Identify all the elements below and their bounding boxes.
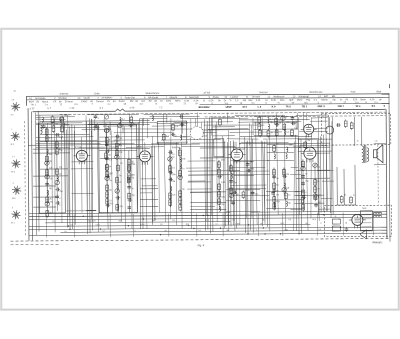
svg-text:5p: 5p <box>182 189 185 191</box>
svg-text:1M: 1M <box>307 140 310 142</box>
svg-text:4 d: 4 d <box>140 104 144 106</box>
svg-text:0,1: 0,1 <box>314 100 318 102</box>
svg-text:470: 470 <box>250 168 254 170</box>
svg-text:1 a: 1 a <box>45 104 49 106</box>
svg-text:1M: 1M <box>59 167 62 169</box>
svg-text:EL: EL <box>107 101 111 103</box>
svg-text:8µF: 8µF <box>289 100 294 102</box>
svg-text:Sk: Sk <box>218 100 222 102</box>
svg-text:g2: g2 <box>109 139 112 141</box>
svg-text:Netz: Netz <box>362 207 366 210</box>
svg-text:LS: LS <box>375 141 378 143</box>
svg-text:6,3V~: 6,3V~ <box>140 224 146 226</box>
svg-text:4µ: 4µ <box>226 230 229 232</box>
svg-text:a: a <box>59 198 61 200</box>
svg-text:30: 30 <box>271 132 274 134</box>
svg-text:12: 12 <box>353 195 356 197</box>
svg-text:0,5: 0,5 <box>288 219 292 221</box>
svg-text:0,05: 0,05 <box>246 190 251 192</box>
svg-text:60: 60 <box>172 157 175 159</box>
svg-text:1 4: 1 4 <box>12 156 15 158</box>
svg-text:450V: 450V <box>297 100 303 102</box>
svg-text:80: 80 <box>136 101 139 103</box>
svg-text:0: 0 <box>12 207 13 209</box>
svg-text:Demod: Demod <box>96 101 104 103</box>
svg-text:EZ: EZ <box>149 101 153 103</box>
svg-text:0,2A: 0,2A <box>370 98 375 101</box>
svg-text:70p: 70p <box>233 182 237 184</box>
svg-text:1n: 1n <box>288 195 291 197</box>
svg-text:NSF 3: NSF 3 <box>318 105 326 108</box>
svg-text:470: 470 <box>119 206 123 208</box>
svg-text:2M: 2M <box>286 174 289 176</box>
svg-text:Netzsch: Netzsch <box>88 220 95 223</box>
svg-text:Ausf.: Ausf. <box>350 91 356 94</box>
svg-text:0,1: 0,1 <box>109 200 113 202</box>
svg-text:470: 470 <box>49 202 53 204</box>
svg-text:Pil: Pil <box>346 99 349 101</box>
svg-text:100: 100 <box>59 150 63 152</box>
svg-text:2M: 2M <box>119 138 122 140</box>
svg-text:Elko: Elko <box>280 100 285 102</box>
svg-text:EM: EM <box>130 101 134 103</box>
svg-text:EF89: EF89 <box>137 146 143 148</box>
svg-text:0,1: 0,1 <box>276 194 280 196</box>
svg-text:84: 84 <box>113 101 116 103</box>
svg-text:Si: Si <box>203 100 206 102</box>
svg-text:Skalenlampe: Skalenlampe <box>145 92 160 95</box>
svg-text:5k: 5k <box>317 181 320 183</box>
svg-text:8: 8 <box>156 103 158 105</box>
svg-text:0,2: 0,2 <box>198 230 202 232</box>
svg-text:52 a: 52 a <box>356 105 361 108</box>
svg-text:0,3: 0,3 <box>286 132 290 134</box>
svg-text:e 04: e 04 <box>130 106 135 109</box>
svg-text:1n: 1n <box>119 159 122 161</box>
svg-text:2x: 2x <box>340 99 343 101</box>
svg-text:gn: gn <box>379 99 382 101</box>
svg-text:M 4: M 4 <box>243 106 248 109</box>
svg-text:70p: 70p <box>305 181 309 183</box>
svg-text:a: a <box>134 230 136 232</box>
svg-text:2M: 2M <box>172 181 175 183</box>
svg-text:0,05: 0,05 <box>221 182 226 184</box>
svg-text:0,5: 0,5 <box>49 168 53 170</box>
svg-text:2 c: 2 c <box>108 104 112 106</box>
svg-text:Sk b: Sk b <box>12 198 17 200</box>
svg-text:70p: 70p <box>131 195 135 197</box>
svg-text:5p: 5p <box>119 175 122 177</box>
svg-text:220V: 220V <box>166 101 172 103</box>
svg-text:W: W <box>175 136 177 138</box>
svg-text:c 30: c 30 <box>70 107 75 110</box>
svg-text:Gr: Gr <box>265 99 268 102</box>
svg-text:0,5: 0,5 <box>286 188 290 190</box>
svg-text:0,5: 0,5 <box>119 145 123 147</box>
svg-text:8 b: 8 b <box>372 105 376 108</box>
svg-text:k: k <box>59 205 61 207</box>
svg-text:3n: 3n <box>305 173 308 175</box>
svg-text:6,8: 6,8 <box>175 126 179 128</box>
svg-text:W 4: W 4 <box>312 219 316 221</box>
svg-text:d 1: d 1 <box>100 107 104 110</box>
svg-text:ECH81: ECH81 <box>75 147 83 149</box>
svg-text:6,8: 6,8 <box>109 159 113 161</box>
svg-text:35: 35 <box>124 104 127 106</box>
svg-text:7: 7 <box>92 104 94 106</box>
svg-text:E10: E10 <box>353 99 358 101</box>
svg-text:Skl: Skl <box>332 99 336 101</box>
svg-text:0,25: 0,25 <box>256 100 261 102</box>
svg-text:K 9: K 9 <box>272 105 277 108</box>
svg-text:k: k <box>98 128 100 130</box>
svg-text:89: 89 <box>59 101 62 103</box>
svg-text:2x45: 2x45 <box>271 100 277 102</box>
svg-text:St II: St II <box>10 143 14 146</box>
svg-text:30: 30 <box>164 230 167 232</box>
svg-text:6,8: 6,8 <box>318 229 322 231</box>
svg-text:EF: EF <box>53 101 57 103</box>
svg-text:30: 30 <box>108 155 111 157</box>
svg-text:b 7: b 7 <box>48 107 52 110</box>
svg-text:0,1: 0,1 <box>52 221 56 223</box>
svg-text:0,1: 0,1 <box>172 167 176 169</box>
svg-text:EM80: EM80 <box>300 145 306 147</box>
svg-text:a: a <box>98 118 100 120</box>
svg-text:21: 21 <box>184 103 187 105</box>
svg-text:L 2: L 2 <box>258 106 262 109</box>
svg-text:Zf-Teil: Zf-Teil <box>203 92 210 95</box>
svg-text:W: W <box>109 166 111 168</box>
svg-text:Zf-Verst: Zf-Verst <box>65 100 73 103</box>
svg-text:Ba9s: Ba9s <box>361 99 367 101</box>
svg-text:0,3: 0,3 <box>166 136 170 138</box>
svg-text:Anz: Anz <box>141 100 146 103</box>
svg-text:5p: 5p <box>288 203 291 205</box>
svg-text:EL84: EL84 <box>240 149 246 151</box>
svg-text:0: 0 <box>320 223 322 225</box>
svg-text:f6: f6 <box>345 223 348 225</box>
svg-text:0,5A: 0,5A <box>209 99 214 102</box>
svg-text:W 1: W 1 <box>11 222 15 224</box>
svg-text:1M: 1M <box>221 204 224 206</box>
svg-text:12: 12 <box>102 231 105 233</box>
svg-text:0,05: 0,05 <box>59 137 64 139</box>
svg-text:15: 15 <box>120 163 123 165</box>
svg-text:26: 26 <box>13 91 16 93</box>
svg-text:60: 60 <box>276 185 279 187</box>
svg-text:81: 81 <box>37 102 40 104</box>
svg-text:EABC: EABC <box>81 100 88 103</box>
svg-text:3n: 3n <box>131 188 134 190</box>
svg-text:Fig. 4: Fig. 4 <box>198 243 205 247</box>
svg-text:1n: 1n <box>182 168 185 170</box>
svg-text:Gl: Gl <box>160 101 163 103</box>
svg-text:4µ: 4µ <box>276 178 279 180</box>
svg-text:10k: 10k <box>49 178 53 180</box>
svg-text:0,1: 0,1 <box>172 220 176 222</box>
svg-text:50k: 50k <box>49 154 53 156</box>
svg-text:0,1: 0,1 <box>49 137 53 139</box>
svg-text:6,3V: 6,3V <box>184 100 189 102</box>
svg-text:Pap: Pap <box>306 100 311 102</box>
svg-text:Dr: Dr <box>224 99 227 102</box>
svg-text:Reinartz: Reinartz <box>372 240 383 244</box>
svg-text:g2: g2 <box>344 194 347 196</box>
svg-text:0 b: 0 b <box>75 104 79 106</box>
svg-text:6: 6 <box>384 105 386 108</box>
svg-text:Sk a: Sk a <box>11 171 16 173</box>
svg-text:50k: 50k <box>172 174 176 176</box>
svg-text:Wid: Wid <box>248 100 253 102</box>
svg-text:Antenne: Antenne <box>59 93 69 96</box>
svg-text:k: k <box>261 125 263 127</box>
svg-text:80: 80 <box>91 101 94 103</box>
svg-text:50k: 50k <box>276 201 280 203</box>
svg-text:Erde: Erde <box>94 92 100 95</box>
svg-text:100: 100 <box>284 229 288 231</box>
svg-text:c: c <box>11 129 12 131</box>
svg-text:TB 1: TB 1 <box>302 105 308 108</box>
svg-text:70p: 70p <box>59 191 63 193</box>
svg-text:UKW: UKW <box>226 106 233 109</box>
svg-text:200: 200 <box>182 137 186 139</box>
svg-text:50Hz: 50Hz <box>175 101 181 103</box>
svg-text:9 f: 9 f <box>196 103 199 105</box>
svg-text:Endst: Endst <box>119 100 125 103</box>
svg-text:a b: a b <box>12 99 15 101</box>
svg-text:80: 80 <box>154 101 157 103</box>
svg-text:12: 12 <box>60 104 63 106</box>
svg-text:2M: 2M <box>49 161 52 163</box>
svg-text:a 12: a 12 <box>30 107 35 110</box>
svg-text:12: 12 <box>286 122 289 124</box>
svg-text:k: k <box>256 230 257 232</box>
svg-text:St I: St I <box>11 113 14 116</box>
svg-text:0,2: 0,2 <box>317 167 321 169</box>
svg-text:GW 7: GW 7 <box>338 105 345 108</box>
svg-text:Glimm: Glimm <box>321 100 328 102</box>
svg-text:4W: 4W <box>243 100 247 102</box>
svg-text:Nr 1: Nr 1 <box>32 103 37 106</box>
svg-text:Tr: Tr <box>229 99 231 102</box>
svg-text:Bestell-Liste: Bestell-Liste <box>309 91 323 94</box>
svg-text:1n: 1n <box>64 231 66 233</box>
svg-text:50k: 50k <box>109 203 113 205</box>
svg-text:f 2: f 2 <box>160 106 163 109</box>
svg-text:ECH: ECH <box>29 102 34 104</box>
svg-text:Blatt: Blatt <box>376 90 381 93</box>
svg-text:30: 30 <box>317 188 320 190</box>
svg-text:6 e: 6 e <box>170 103 174 105</box>
svg-text:10k: 10k <box>182 158 186 160</box>
svg-text:BC244DZ: BC244DZ <box>199 106 211 109</box>
svg-text:1M: 1M <box>131 177 134 179</box>
svg-text:4µ: 4µ <box>172 154 175 156</box>
svg-text:200: 200 <box>289 145 293 147</box>
svg-text:1:3: 1:3 <box>235 100 239 102</box>
svg-text:TA 5: TA 5 <box>286 105 292 108</box>
svg-text:Misch: Misch <box>42 101 49 103</box>
svg-text:Netzteil: Netzteil <box>259 91 267 94</box>
svg-text:10k: 10k <box>119 152 123 154</box>
svg-text:12: 12 <box>109 146 112 148</box>
svg-text:0,5: 0,5 <box>172 195 176 197</box>
svg-text:0,3A: 0,3A <box>194 99 199 102</box>
svg-text:Tr: Tr <box>357 140 359 143</box>
svg-text:25: 25 <box>119 182 122 184</box>
svg-text:2: 2 <box>13 183 14 185</box>
